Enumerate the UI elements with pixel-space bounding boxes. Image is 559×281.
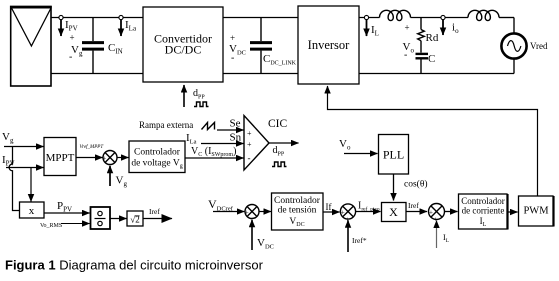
svg-text:Se: Se — [230, 118, 241, 130]
svg-text:Iref: Iref — [149, 207, 160, 216]
svg-text:X: X — [389, 205, 398, 219]
svg-text:Rd: Rd — [426, 32, 439, 44]
svg-text:MPPT: MPPT — [46, 152, 75, 164]
svg-text:-: - — [231, 53, 234, 64]
svg-text:+: + — [230, 33, 235, 43]
svg-text:de voltage Vg: de voltage Vg — [131, 159, 182, 170]
svg-text:x: x — [29, 205, 35, 217]
svg-text:Sn: Sn — [230, 132, 242, 144]
svg-text:PWM: PWM — [523, 206, 549, 217]
svg-text:de corriente: de corriente — [462, 206, 505, 216]
svg-text:-: - — [404, 50, 407, 61]
svg-text:+: + — [405, 23, 410, 33]
svg-text:CIC: CIC — [268, 118, 288, 130]
svg-text:Figura 1 Diagrama del circuito: Figura 1 Diagrama del circuito microinve… — [5, 258, 264, 273]
svg-text:Controlador: Controlador — [461, 196, 505, 206]
svg-text:Vref_MPPT: Vref_MPPT — [80, 145, 105, 150]
svg-text:Iref: Iref — [408, 201, 419, 210]
svg-text:Controlador: Controlador — [134, 148, 181, 158]
svg-text:-: - — [69, 52, 72, 63]
svg-text:PLL: PLL — [383, 148, 404, 162]
svg-text:Vo_RMS: Vo_RMS — [40, 223, 62, 229]
svg-text:Inversor: Inversor — [308, 38, 350, 52]
svg-text:+: + — [245, 209, 249, 217]
svg-text:If: If — [326, 202, 332, 212]
svg-text:+: + — [247, 129, 252, 138]
svg-text:C: C — [428, 53, 435, 65]
svg-text:+: + — [429, 209, 433, 217]
svg-text:+: + — [341, 209, 345, 217]
svg-text:de tensión: de tensión — [278, 206, 317, 216]
svg-text:Iref*: Iref* — [352, 236, 367, 245]
svg-text:+: + — [434, 216, 438, 224]
svg-text:+: + — [247, 140, 252, 149]
svg-text:cos(θ): cos(θ) — [404, 179, 428, 190]
svg-text:DC/DC: DC/DC — [165, 43, 202, 57]
svg-text:+: + — [102, 155, 106, 163]
svg-text:-: - — [248, 153, 251, 163]
svg-text:Controlador: Controlador — [274, 196, 321, 206]
svg-text:Rampa externa: Rampa externa — [139, 120, 193, 130]
svg-text:+: + — [70, 33, 75, 43]
svg-text:Vred: Vred — [530, 41, 548, 51]
